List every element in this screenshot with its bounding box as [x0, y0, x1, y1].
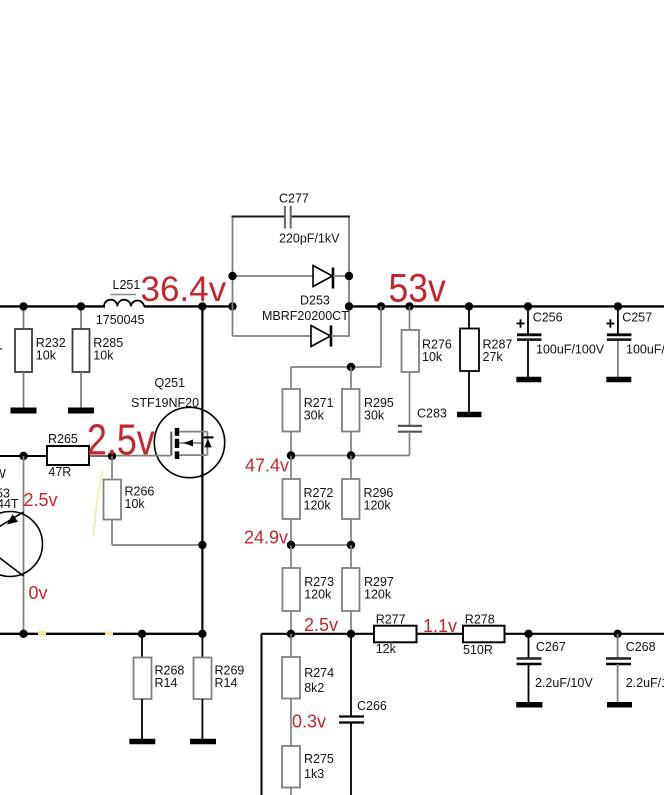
highlighter mark near R266	[94, 471, 104, 536]
svg-text:D253: D253	[300, 294, 330, 308]
svg-text:510R: 510R	[463, 643, 493, 657]
resistor R285 10k	[73, 306, 124, 407]
svg-text:47R: 47R	[48, 465, 71, 479]
node divider feed R295	[347, 363, 355, 371]
node rail R276	[405, 302, 413, 310]
capacitor C268 2.2uF/10V	[606, 634, 664, 703]
svg-text:10k: 10k	[36, 349, 57, 363]
node bottom rail 0v	[19, 630, 27, 638]
resistor R273 120k	[283, 545, 335, 634]
svg-text:R278: R278	[465, 613, 495, 627]
resistor R268 R14	[134, 634, 185, 740]
wire 0v vertical	[23, 456, 25, 634]
svg-text:24.9v: 24.9v	[244, 528, 288, 548]
resistor R266 10k	[104, 456, 203, 545]
svg-text:0v: 0v	[29, 583, 48, 603]
resistor R295 30k	[342, 367, 394, 456]
node 47.4v R295	[347, 451, 355, 459]
resistor R296 120k	[342, 456, 393, 546]
svg-text:R14: R14	[215, 676, 238, 690]
node bottom rail R269	[198, 630, 206, 638]
ground under R287	[457, 412, 482, 418]
svg-text:36.4v: 36.4v	[141, 270, 227, 309]
node Q251 source R266	[198, 541, 206, 549]
node rail R287	[465, 302, 473, 310]
diode D253 upper half	[233, 266, 350, 289]
node rail divider feed	[377, 302, 385, 310]
capacitor C283	[398, 407, 447, 456]
svg-text:44T: 44T	[0, 497, 19, 511]
svg-text:C257: C257	[622, 311, 652, 325]
resistor R287 27k	[460, 306, 512, 412]
svg-text:2.5v: 2.5v	[24, 490, 58, 510]
svg-text:C283: C283	[417, 407, 447, 421]
svg-text:R265: R265	[48, 432, 78, 446]
svg-text:C256: C256	[533, 311, 563, 325]
wire 2.5v net corner vertical	[261, 634, 263, 795]
svg-text:L251: L251	[113, 278, 141, 292]
svg-text:2.5v: 2.5v	[304, 615, 338, 635]
diode D253 lower half	[233, 326, 351, 347]
wire 24.9v row	[291, 544, 351, 546]
resistor R275 1k3	[282, 746, 334, 795]
svg-text:120k: 120k	[364, 588, 392, 602]
transistor Q251 STF19NF20	[131, 306, 225, 633]
svg-text:30k: 30k	[304, 409, 325, 423]
svg-text:27k: 27k	[483, 350, 504, 364]
node 24.9v R273	[287, 541, 295, 549]
ground under R268	[129, 739, 155, 745]
wire R265 to gate node	[89, 455, 112, 457]
svg-text:1.1v: 1.1v	[423, 616, 457, 636]
node rail R285	[77, 302, 85, 310]
node rail C256	[524, 302, 532, 310]
ground under C257	[606, 377, 631, 383]
node box right upper diode	[345, 272, 353, 280]
wire 47.4v row	[291, 455, 410, 457]
node 1.1v C267	[524, 630, 532, 638]
label 2.5v gate	[87, 416, 155, 464]
node 2.5v R274	[287, 630, 295, 638]
svg-text:1k3: 1k3	[304, 767, 324, 781]
svg-text:100uF/10: 100uF/10	[626, 343, 664, 357]
ground under C256	[516, 377, 541, 383]
ground under C268	[607, 702, 632, 708]
node 47.4v R271	[287, 451, 295, 459]
node bottom rail R268	[138, 630, 146, 638]
node rail box left	[228, 302, 236, 310]
svg-text:C267: C267	[536, 640, 566, 654]
wire bottom-left rail	[0, 633, 206, 635]
node rail box right	[345, 302, 353, 310]
wire 53v rail	[349, 305, 664, 307]
svg-text:2.2uF/10V: 2.2uF/10V	[535, 676, 593, 690]
wire R277 to R278	[417, 633, 464, 635]
node box left upper diode	[228, 272, 236, 280]
wire 36.4v rail left segment	[0, 305, 105, 307]
svg-text:1750045: 1750045	[96, 313, 145, 327]
node 1.1v C268	[613, 630, 621, 638]
svg-text:100uF/100V: 100uF/100V	[536, 343, 605, 357]
resistor R276 10k	[402, 306, 452, 425]
svg-text:MBRF20200CT: MBRF20200CT	[262, 309, 349, 323]
svg-text:10k: 10k	[422, 350, 443, 364]
capacitor C277 220pF/1kV	[279, 192, 340, 246]
resistor R265 47R	[47, 432, 89, 479]
wire 36.4v rail right segment	[144, 305, 233, 307]
svg-text:R274: R274	[304, 666, 334, 680]
svg-text:R277: R277	[376, 613, 406, 627]
svg-text:2.2uF/1: 2.2uF/1	[626, 676, 664, 690]
svg-text:0.3v: 0.3v	[292, 712, 326, 732]
svg-text:C268: C268	[626, 640, 656, 654]
wire divider feed vertical	[380, 306, 382, 367]
node rail C257	[614, 302, 622, 310]
svg-text:1: 1	[0, 337, 3, 354]
svg-text:C277: C277	[279, 192, 309, 206]
svg-text:Q251: Q251	[155, 376, 186, 390]
ground under R285	[68, 408, 94, 414]
node rail Q251 drain	[198, 302, 206, 310]
wire 1.1v rail right	[505, 633, 664, 635]
transistor Q253 (clipped at edge)	[0, 512, 43, 577]
node gate R266	[108, 452, 116, 460]
resistor R232 10k	[15, 306, 66, 407]
svg-text:12k: 12k	[376, 642, 397, 656]
capacitor C266	[339, 634, 387, 795]
highlighter mark on bottom rail left	[38, 631, 46, 636]
svg-text:120k: 120k	[304, 588, 332, 602]
svg-text:120k: 120k	[304, 499, 332, 513]
ground under C267	[516, 702, 542, 708]
ground under R232	[11, 408, 37, 414]
resistor R297 120k	[342, 545, 394, 634]
wire snubber box left vertical	[232, 217, 234, 337]
capacitor C257 100uF/100V	[606, 306, 664, 377]
wire 2.5v net horizontal	[262, 633, 375, 635]
label 53v	[389, 267, 446, 311]
node 24.9v R297	[347, 541, 355, 549]
svg-text:47.4v: 47.4v	[245, 456, 289, 476]
node rail R232	[19, 302, 27, 310]
svg-text:8k2: 8k2	[304, 681, 324, 695]
svg-text:R275: R275	[304, 752, 334, 766]
resistor R272 120k	[283, 456, 334, 546]
node gate row left	[19, 452, 27, 460]
wire snubber box right vertical	[348, 217, 350, 337]
node 2.5v C266	[347, 630, 355, 638]
svg-text:10k: 10k	[125, 497, 146, 511]
wire snubber box top right	[291, 216, 350, 218]
resistor R271 30k	[283, 367, 334, 456]
ground under R269	[190, 739, 216, 745]
resistor R278 510R	[463, 613, 505, 658]
svg-text:53v: 53v	[389, 267, 446, 311]
svg-text:220pF/1kV: 220pF/1kV	[279, 232, 340, 246]
svg-text:W: W	[0, 467, 6, 481]
svg-text:2.5v: 2.5v	[87, 416, 155, 464]
inductor L251 1750045	[96, 278, 145, 327]
capacitor C256 100uF/100V	[517, 306, 605, 377]
resistor R277 12k	[374, 613, 417, 657]
wire snubber box top left	[232, 216, 286, 218]
resistor R269 R14	[194, 634, 245, 740]
highlighter mark on bottom rail mid	[105, 632, 113, 636]
wire gate row left	[0, 455, 47, 457]
svg-text:C266: C266	[357, 699, 387, 713]
wire gate node to Q251 gate	[112, 455, 171, 457]
svg-text:120k: 120k	[364, 499, 392, 513]
wire divider feed horizontal	[291, 366, 381, 368]
svg-text:30k: 30k	[364, 409, 385, 423]
svg-text:10k: 10k	[93, 349, 114, 363]
capacitor C267 2.2uF/10V	[517, 634, 594, 703]
resistor R274 8k2	[282, 634, 334, 746]
svg-text:R14: R14	[155, 676, 178, 690]
